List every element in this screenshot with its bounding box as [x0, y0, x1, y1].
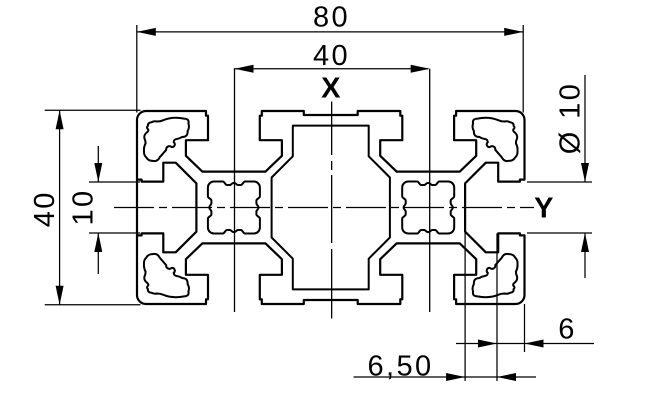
central cavity — [272, 126, 390, 290]
dim 80 line — [137, 31, 523, 33]
corner blob BL — [144, 254, 189, 297]
dim 40 top line — [234, 68, 428, 70]
svg-text:40: 40 — [313, 40, 350, 72]
slot centre line 2 — [429, 69, 431, 312]
dim 40 left line — [59, 110, 61, 305]
dim 40 left extension lines — [45, 109, 141, 111]
dim 10 left extension lines — [89, 181, 140, 183]
dim 6 line — [456, 343, 594, 345]
dim 80 extension lines — [136, 25, 138, 113]
svg-text:Y: Y — [534, 192, 556, 224]
dim dia10 extension lines — [527, 181, 592, 183]
core square right — [402, 182, 454, 234]
slot centre line 1 — [234, 69, 236, 312]
svg-text:40: 40 — [29, 190, 61, 227]
dim 10 left line — [97, 146, 99, 182]
corner blob TR — [473, 118, 518, 161]
dim 6 extension lines — [496, 233, 498, 381]
profile outline — [137, 111, 525, 304]
svg-text:10: 10 — [68, 188, 100, 225]
dim 6,50 extension line — [464, 232, 466, 381]
svg-text:6: 6 — [558, 314, 577, 346]
svg-text:Ø 10: Ø 10 — [555, 82, 587, 154]
dim dia10 line — [584, 75, 586, 182]
centre line X axis — [331, 102, 333, 319]
core square left — [208, 182, 260, 234]
svg-text:X: X — [321, 73, 343, 105]
centre line Y axis — [114, 207, 534, 209]
dim 6,50 line — [354, 376, 537, 378]
svg-text:80: 80 — [313, 2, 350, 34]
corner blob TL — [144, 118, 189, 161]
svg-text:6,50: 6,50 — [367, 351, 433, 383]
corner blob BR — [473, 254, 518, 297]
